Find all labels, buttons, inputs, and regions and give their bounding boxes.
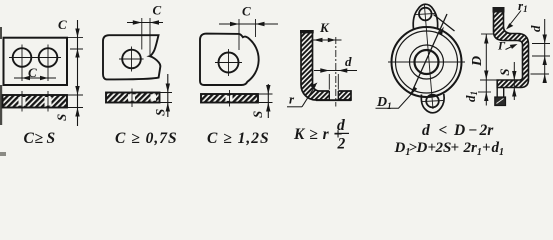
side view strip of figure 1 bbox=[3, 95, 68, 108]
formula 4 fraction bar bbox=[335, 132, 350, 134]
D dimension arrows bbox=[484, 35, 488, 80]
svg-text:d: d bbox=[345, 54, 352, 69]
svg-text:2S: 2S bbox=[435, 140, 452, 156]
bottom lug hole bbox=[426, 95, 439, 108]
nut block below flange bbox=[495, 97, 506, 106]
strip 3 hatch gap bbox=[226, 96, 233, 101]
strip 2 hatch gap bbox=[128, 94, 135, 100]
S dimension line of figure 6 bbox=[513, 62, 515, 100]
S dimension of figure 1: extension ticks bbox=[67, 95, 83, 108]
bottom lug outline bbox=[421, 94, 444, 113]
strip centerline 2 bbox=[47, 91, 49, 112]
C dimension of figure 2: extension lines bbox=[142, 18, 150, 55]
d1 dimension arrow bbox=[484, 92, 488, 101]
scan smudge left edge top bbox=[0, 27, 2, 39]
D1 label leader bbox=[376, 95, 411, 108]
C dimension of figure 2: dimension line bbox=[127, 22, 163, 24]
r leader of figure 6 bbox=[506, 45, 516, 50]
scan smudge bottom left bbox=[0, 152, 6, 156]
D dimension line of figure 6 bbox=[485, 34, 487, 106]
d dimension of figure 4: extension lines bbox=[329, 74, 338, 90]
d dimension arrows right side bbox=[543, 35, 547, 84]
svg-text:<: < bbox=[439, 122, 448, 139]
svg-text:+: + bbox=[482, 140, 491, 156]
scan smudge left edge middle bbox=[0, 85, 2, 125]
svg-text:K: K bbox=[319, 20, 330, 35]
side view strip of figure 2 bbox=[106, 93, 160, 103]
C edge dimension: extension ticks bbox=[67, 37, 83, 49]
hole edge lines in foot bbox=[329, 91, 338, 100]
svg-text:C: C bbox=[24, 130, 35, 147]
C edge dimension: arrows bbox=[75, 29, 79, 58]
top lug hole bbox=[419, 8, 432, 21]
svg-text:C: C bbox=[153, 3, 162, 18]
plate 2 outline with notched edge bbox=[103, 35, 160, 79]
flange top edge extension left bbox=[480, 79, 497, 81]
foot bottom edge thick bbox=[316, 99, 351, 101]
horizontal centerline bbox=[388, 61, 465, 63]
strip hatch gaps bbox=[19, 97, 26, 106]
rim circle bbox=[396, 31, 458, 93]
plate 1 outline bbox=[4, 38, 68, 85]
C dimension of figure 3: dimension line bbox=[219, 23, 278, 25]
hole of plate 2 bbox=[122, 50, 141, 69]
stray leader mark near top lug bbox=[434, 15, 455, 32]
S dimension of figure 3: line bbox=[267, 84, 269, 118]
svg-text:S: S bbox=[47, 130, 56, 147]
C dimension of figure 2: arrows bbox=[133, 20, 159, 24]
hole 1 crosshair bbox=[9, 45, 35, 71]
svg-text:S: S bbox=[54, 114, 69, 121]
svg-text:≥: ≥ bbox=[35, 130, 44, 147]
svg-text:+: + bbox=[451, 140, 460, 156]
D1 diameter dimension line (tilted) bbox=[411, 14, 448, 95]
d dimension of figure 4: line bbox=[314, 70, 357, 72]
svg-text:2r: 2r bbox=[479, 122, 495, 139]
centerline of hole in foot bbox=[335, 37, 337, 107]
axis tick at left of neck bbox=[481, 33, 494, 35]
svg-text:D: D bbox=[470, 56, 485, 67]
right vertical dimension line of figure 1 bbox=[77, 20, 79, 126]
lower extension tick left bbox=[478, 91, 491, 93]
K dimension: line bbox=[313, 39, 342, 41]
svg-text:d: d bbox=[337, 117, 345, 134]
S dimension of figure 2: extension ticks bbox=[160, 93, 172, 103]
flange section S-band hatched bbox=[494, 8, 529, 88]
top lug crosshair bbox=[415, 13, 436, 14]
svg-text:S: S bbox=[250, 111, 265, 118]
svg-text:d: d bbox=[528, 25, 543, 32]
C dimension of figure 3: arrows bbox=[230, 22, 265, 26]
K dimension: arrows bbox=[314, 38, 336, 42]
hole 1 of plate 1 bbox=[13, 48, 32, 67]
hole 2 crosshair bbox=[35, 45, 61, 71]
svg-text:d: d bbox=[422, 122, 430, 139]
svg-text:−: − bbox=[468, 122, 477, 139]
S dimension arrows of figure 6 bbox=[512, 71, 516, 97]
D1 diameter top arrowhead bbox=[438, 27, 444, 36]
hole of plate 3 bbox=[219, 53, 239, 73]
svg-text:D: D bbox=[416, 140, 428, 156]
strip 3 centerline bbox=[229, 90, 231, 107]
hole 2 crosshair bbox=[119, 47, 144, 72]
svg-text:C: C bbox=[58, 17, 67, 32]
d dimension ticks right side bbox=[531, 44, 551, 75]
dimension C between holes: extension centerlines bbox=[22, 71, 48, 82]
svg-text:K ≥ r +: K ≥ r + bbox=[293, 126, 343, 143]
svg-text:C: C bbox=[242, 4, 251, 19]
S dimension of figure 1: arrows bbox=[75, 86, 79, 117]
svg-text:S: S bbox=[153, 109, 168, 116]
C dimension of figure 3: extension lines bbox=[239, 19, 256, 50]
svg-text:S: S bbox=[497, 69, 512, 76]
hole 2 of plate 1 bbox=[39, 48, 58, 67]
svg-text:Г: Г bbox=[497, 39, 506, 53]
hole gap in bracket foot bbox=[329, 90, 338, 102]
d dimension of figure 4: arrows bbox=[320, 68, 347, 72]
neck top cap bbox=[493, 7, 505, 13]
tilted vertical axis through lugs bbox=[424, 4, 433, 109]
bore circle thick bbox=[415, 50, 439, 74]
svg-text:C: C bbox=[28, 65, 37, 80]
r leader underline bbox=[287, 106, 302, 108]
D1 diameter bottom arrowhead bbox=[411, 87, 418, 96]
top lug outline bbox=[413, 4, 437, 29]
dimension C between holes: line and arrows bbox=[14, 77, 56, 79]
side view strip of figure 3 bbox=[201, 94, 258, 103]
svg-text:D: D bbox=[453, 122, 465, 139]
d dimension line right side bbox=[544, 19, 546, 83]
S dimension of figure 3: extension ticks bbox=[259, 94, 273, 103]
bracket top cap bbox=[300, 30, 314, 33]
strip centerline 1 bbox=[21, 91, 23, 112]
r1 leader with arrow bbox=[508, 11, 521, 28]
bolt hole edge lines below flange bbox=[497, 88, 504, 98]
hole 3 crosshair bbox=[215, 49, 242, 76]
r leader diagonal with arrow bbox=[302, 86, 316, 107]
S dimension of figure 3: arrows bbox=[266, 85, 270, 112]
bottom lug crosshair bbox=[422, 101, 443, 102]
plate 3 outline with round boss bbox=[200, 34, 259, 85]
outer circle bbox=[392, 27, 462, 97]
svg-text:C ≥ 0,7S: C ≥ 0,7S bbox=[115, 130, 178, 147]
svg-text:C ≥ 1,2S: C ≥ 1,2S bbox=[207, 130, 270, 147]
inner circle thin bbox=[410, 45, 444, 79]
S dimension of figure 2: line bbox=[167, 74, 169, 117]
strip 2 centerline bbox=[131, 89, 133, 108]
S dimension of figure 2: arrows bbox=[166, 84, 170, 112]
angle bracket hatched section bbox=[301, 32, 351, 100]
svg-text:2: 2 bbox=[337, 136, 346, 153]
nut block highlight bbox=[497, 99, 504, 104]
